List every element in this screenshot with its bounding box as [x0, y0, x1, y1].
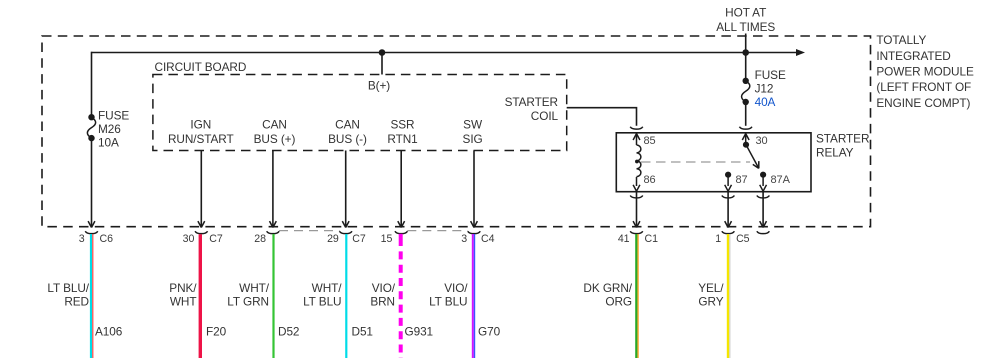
- svg-text:CAN: CAN: [335, 118, 360, 132]
- wire WHT/LT BLU (cyan): [345, 234, 347, 358]
- svg-text:WHT/: WHT/: [312, 281, 343, 295]
- svg-text:87: 87: [736, 174, 748, 186]
- fuse J12 symbol: [743, 78, 749, 84]
- svg-text:(LEFT FRONT OF: (LEFT FRONT OF: [876, 80, 971, 94]
- svg-text:YEL/: YEL/: [698, 281, 724, 295]
- wire CAN BUS (-) down: [345, 151, 347, 227]
- svg-text:C7: C7: [352, 233, 366, 245]
- wire relay 86 to connector C1: [636, 192, 638, 227]
- svg-text:VIO/: VIO/: [444, 281, 468, 295]
- svg-text:CIRCUIT BOARD: CIRCUIT BOARD: [155, 60, 247, 74]
- wire coil to pin 86: [636, 177, 638, 186]
- junction dot at fuse J12 branch: [742, 49, 749, 56]
- junction dot at B(+) branch: [379, 49, 386, 56]
- relay pin 86 exit arrow: [633, 185, 640, 191]
- wire from fuse J12 to relay pin 30: [745, 102, 747, 126]
- connector bracket below relay pin 87A: [757, 196, 770, 198]
- relay U1 starter relay box: [616, 133, 811, 192]
- arrow IGN wire: [198, 221, 205, 227]
- svg-text:WHT/: WHT/: [239, 281, 270, 295]
- svg-text:BRN: BRN: [370, 295, 395, 309]
- wire pin 87 down: [727, 175, 729, 186]
- svg-text:A106: A106: [95, 325, 123, 339]
- relay switch blade arrowhead: [753, 161, 762, 170]
- svg-text:ENGINE COMPT): ENGINE COMPT): [876, 96, 970, 110]
- svg-text:10A: 10A: [98, 136, 119, 150]
- relay coil winding: [637, 145, 641, 177]
- connector bracket pin 28: [267, 231, 280, 233]
- svg-text:SW: SW: [463, 118, 483, 132]
- svg-text:40A: 40A: [755, 95, 776, 109]
- svg-text:VIO/: VIO/: [372, 281, 396, 295]
- svg-text:HOT AT: HOT AT: [725, 6, 766, 20]
- wire LT BLU/RED red tracer: [92, 234, 94, 358]
- svg-text:C6: C6: [100, 233, 114, 245]
- connector bracket below relay pin 87: [722, 196, 735, 198]
- svg-text:CAN: CAN: [262, 118, 287, 132]
- svg-text:C1: C1: [645, 233, 659, 245]
- arrow 87A wire at module edge: [760, 221, 767, 227]
- wire pin 87A down: [762, 175, 764, 186]
- connector C4 shared dashed bracket 15-3: [407, 230, 467, 232]
- svg-text:C5: C5: [736, 233, 750, 245]
- svg-text:B(+): B(+): [368, 79, 390, 93]
- svg-text:D52: D52: [278, 325, 299, 339]
- arrow SW wire: [471, 221, 478, 227]
- svg-text:POWER MODULE: POWER MODULE: [876, 65, 974, 79]
- relay switch pivot dot: [743, 142, 749, 148]
- connector bracket below 87A wire: [757, 231, 770, 233]
- wire relay 87A to module edge: [762, 192, 764, 227]
- wire YEL/GRY grey tracer: [729, 234, 731, 358]
- wire WHT/LT GRN (green): [272, 234, 274, 358]
- arrow at right end of bus: [796, 49, 805, 56]
- wire DK GRN/ORG orange tracer: [637, 234, 639, 358]
- wire from bus junction down to fuse J12: [745, 53, 747, 81]
- svg-text:LT BLU: LT BLU: [303, 295, 341, 309]
- wire LT BLU/RED (cyan): [90, 234, 92, 358]
- svg-text:M26: M26: [98, 122, 121, 136]
- svg-text:3: 3: [79, 233, 85, 245]
- connector C5 bracket pin 1: [722, 231, 735, 233]
- connector bracket above relay pin 85: [630, 127, 643, 129]
- wire main B+ bus horizontal: [92, 52, 797, 54]
- wire YEL/GRY (yellow): [727, 234, 729, 358]
- relay pin 30 entry arrow: [742, 134, 749, 140]
- wire left branch down to fuse M26: [91, 52, 93, 118]
- svg-text:J12: J12: [755, 82, 774, 96]
- svg-text:RTN1: RTN1: [387, 132, 417, 146]
- wire relay 87 to connector C5: [727, 192, 729, 227]
- connector bracket pin 15: [395, 231, 408, 233]
- relay internal dashed link: [641, 161, 750, 163]
- arrow CAN+ wire: [270, 221, 277, 227]
- svg-text:LT BLU: LT BLU: [429, 295, 467, 309]
- svg-text:PNK/: PNK/: [169, 281, 197, 295]
- wire PNK/WHT (crimson): [199, 234, 202, 358]
- arrow CAN- wire: [342, 221, 349, 227]
- fuse M26 symbol: [88, 114, 94, 120]
- relay pin 87 exit arrow: [725, 185, 732, 191]
- wire SSR RTN1 down: [400, 151, 402, 227]
- svg-text:BUS (+): BUS (+): [254, 132, 296, 146]
- svg-text:28: 28: [254, 233, 266, 245]
- wire DK GRN/ORG (green): [635, 234, 637, 358]
- connector C1 bracket pin 41: [630, 231, 643, 233]
- svg-text:BUS (-): BUS (-): [328, 132, 367, 146]
- connector C7 bracket pin 29: [339, 231, 352, 233]
- svg-text:RELAY: RELAY: [816, 146, 854, 160]
- svg-text:30: 30: [756, 135, 768, 147]
- svg-text:STARTER: STARTER: [505, 95, 558, 109]
- TIPM module dashed boundary box: [42, 36, 871, 227]
- svg-text:LT BLU/: LT BLU/: [47, 281, 89, 295]
- svg-text:SSR: SSR: [390, 118, 414, 132]
- svg-text:TOTALLY: TOTALLY: [876, 33, 926, 47]
- svg-text:FUSE: FUSE: [755, 68, 786, 82]
- svg-text:G931: G931: [405, 325, 434, 339]
- wire SW SIG down: [473, 151, 475, 227]
- wire starter coil to relay pin 85: [567, 108, 637, 126]
- relay contact dot pin 87: [725, 172, 731, 178]
- svg-text:ALL TIMES: ALL TIMES: [716, 20, 775, 34]
- wire VIO/LT BLU blue tracer: [474, 234, 476, 358]
- wire VIO/LT BLU (violet): [472, 234, 474, 358]
- svg-text:C7: C7: [209, 233, 223, 245]
- svg-text:15: 15: [381, 233, 393, 245]
- connector bracket above relay pin 30: [739, 127, 752, 129]
- wire pin 30 to switch pivot: [745, 134, 747, 145]
- svg-text:F20: F20: [206, 325, 227, 339]
- arrow 86 wire at module edge: [633, 221, 640, 227]
- wire from HOT AT ALL TIMES down into module: [745, 34, 747, 53]
- relay contact dot pin 87A: [760, 172, 766, 178]
- svg-text:30: 30: [183, 233, 195, 245]
- svg-text:C4: C4: [481, 233, 495, 245]
- arrow into C6: [88, 221, 95, 227]
- svg-text:COIL: COIL: [531, 109, 559, 123]
- svg-text:STARTER: STARTER: [816, 131, 869, 145]
- svg-text:RED: RED: [64, 295, 89, 309]
- wire pin 85 to coil: [636, 134, 638, 145]
- svg-text:DK GRN/: DK GRN/: [583, 281, 632, 295]
- svg-text:29: 29: [327, 233, 339, 245]
- svg-text:RUN/START: RUN/START: [168, 132, 234, 146]
- wire IGN RUN/START down to connector C7: [200, 151, 202, 227]
- svg-text:LT GRN: LT GRN: [227, 295, 269, 309]
- svg-text:IGN: IGN: [190, 118, 211, 132]
- svg-text:41: 41: [618, 233, 630, 245]
- wire B(+) drop from bus to circuit board: [381, 53, 383, 75]
- svg-text:INTEGRATED: INTEGRATED: [876, 49, 950, 63]
- svg-text:G70: G70: [478, 325, 501, 339]
- svg-text:D51: D51: [352, 325, 373, 339]
- svg-text:SIG: SIG: [463, 132, 483, 146]
- connector C7 shared dashed bracket 28-29: [279, 230, 340, 232]
- svg-text:GRY: GRY: [698, 295, 723, 309]
- circuit board dashed box: [153, 75, 567, 151]
- wire CAN BUS (+) down: [272, 151, 274, 227]
- svg-text:3: 3: [461, 233, 467, 245]
- wire VIO/BRN (magenta dashed): [399, 234, 403, 246]
- arrow SSR wire: [398, 221, 405, 227]
- connector C7 bracket pin 30: [195, 231, 208, 233]
- coil centre tap dot: [635, 160, 639, 164]
- arrow 87 wire at module edge: [725, 221, 732, 227]
- relay pin 85 entry arrow: [633, 134, 640, 140]
- relay pin 87A exit arrow: [760, 185, 767, 191]
- connector bracket below relay pin 86: [630, 196, 643, 198]
- svg-text:1: 1: [715, 233, 721, 245]
- connector C6 bracket pin 3: [85, 231, 98, 233]
- wire from fuse M26 down to connector C6: [91, 138, 93, 226]
- connector C4 bracket pin 3: [468, 231, 481, 233]
- relay switch blade: [746, 145, 758, 167]
- svg-text:86: 86: [644, 174, 656, 186]
- svg-text:FUSE: FUSE: [98, 108, 129, 122]
- svg-text:85: 85: [644, 135, 656, 147]
- svg-text:87A: 87A: [771, 174, 791, 186]
- svg-text:ORG: ORG: [605, 295, 632, 309]
- svg-text:WHT: WHT: [170, 295, 197, 309]
